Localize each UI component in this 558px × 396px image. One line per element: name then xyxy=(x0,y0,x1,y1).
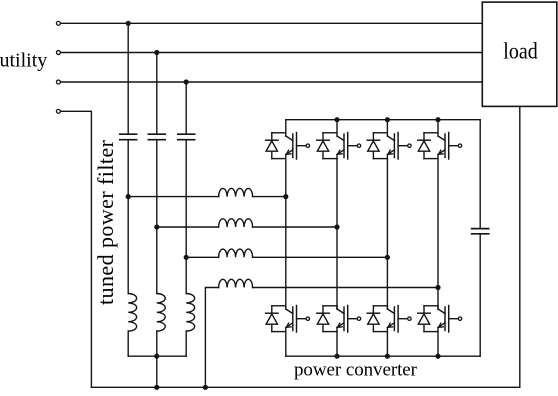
terminal: utility phase C xyxy=(56,80,60,84)
node: branch 1 tap on phase A xyxy=(126,21,131,26)
node: neutral feed junction xyxy=(203,385,208,390)
inductor La (converter link) xyxy=(219,188,253,196)
wire: row 3 from branch 3 xyxy=(186,256,218,258)
IGBT switch S8 (lower, with anti-parallel diode) xyxy=(418,306,462,357)
node: branch 3 feed to converter inductor row 3 xyxy=(184,255,189,260)
terminal: utility neutral xyxy=(56,109,60,113)
wire: DC- bottom bus xyxy=(286,355,480,357)
wire: filter bottom bus xyxy=(128,355,186,357)
wire: phase leg 3 midpoint xyxy=(386,155,388,310)
inductor L1 (tuned filter coil) xyxy=(128,294,136,332)
node: filter drop on neutral rail xyxy=(154,385,159,390)
wire: neutral jog down xyxy=(61,111,91,387)
node: branch 2 feed to converter inductor row 2 xyxy=(154,224,159,229)
inductor Lb (converter link) xyxy=(219,219,253,227)
wire: bottom neutral rail xyxy=(91,386,519,388)
IGBT switch S3 (upper, with anti-parallel diode) xyxy=(367,120,411,159)
IGBT switch S1 (upper, with anti-parallel diode) xyxy=(266,120,310,159)
wire: branch 1 lower segment xyxy=(127,331,129,356)
capacitor C2 (tuned filter) xyxy=(148,134,165,140)
capacitor C3 (tuned filter) xyxy=(178,134,195,140)
terminal: utility phase A xyxy=(56,21,60,25)
wire: DC right leg lower xyxy=(479,234,481,356)
IGBT switch S4 (upper, with anti-parallel diode) xyxy=(418,120,462,159)
node: leg 4 on DC+ bus xyxy=(435,117,440,122)
wire: DC right leg upper xyxy=(479,120,481,229)
node: row 3 on leg 3 xyxy=(385,255,390,260)
svg-text:load: load xyxy=(503,38,537,64)
wire: row 1 to leg 1 xyxy=(253,196,286,198)
wire: load neutral drop xyxy=(519,106,521,387)
node: filter bus junction xyxy=(154,354,159,359)
svg-text:power converter: power converter xyxy=(294,359,418,380)
IGBT switch S7 (lower, with anti-parallel diode) xyxy=(367,306,411,357)
wire: row 3 to leg 3 xyxy=(253,256,388,258)
node: leg 4 on DC- bus xyxy=(435,354,440,359)
wire: phase leg 4 midpoint xyxy=(437,155,439,310)
wire: row 2 from branch 2 xyxy=(157,226,219,228)
wire: phase leg 1 midpoint xyxy=(285,155,287,310)
inductor Ln (converter link) xyxy=(219,279,253,287)
wire: utility phase A line to load xyxy=(61,22,482,24)
node: branch 1 feed to converter inductor row 1 xyxy=(126,194,131,199)
node: branch 3 tap on phase C xyxy=(184,79,189,84)
node: leg 2 on DC- bus xyxy=(334,354,339,359)
wire: row 4 feed from neutral rail xyxy=(205,288,218,388)
terminal: utility phase B xyxy=(56,51,60,55)
wire: filter bus drop to neutral xyxy=(156,356,158,387)
IGBT switch S5 (lower, with anti-parallel diode) xyxy=(266,306,310,357)
wire: branch 3 lower segment xyxy=(185,331,187,356)
node: row 4 on leg 4 xyxy=(435,285,440,290)
wire: utility phase C line to load xyxy=(61,81,482,83)
wire: branch 1 upper segment xyxy=(127,23,129,134)
wire: branch 2 middle segment xyxy=(156,140,158,294)
node: row 2 on leg 2 xyxy=(334,224,339,229)
inductor Lc (converter link) xyxy=(219,249,253,257)
wire: branch 2 lower segment xyxy=(156,331,158,356)
node: branch 2 tap on phase B xyxy=(154,50,159,55)
wire: utility phase B line to load xyxy=(61,52,482,54)
capacitor DC link xyxy=(472,229,489,234)
IGBT switch S6 (lower, with anti-parallel diode) xyxy=(317,306,361,357)
IGBT switch S2 (upper, with anti-parallel diode) xyxy=(317,120,361,159)
svg-text:utility: utility xyxy=(0,49,47,71)
node: row 1 on leg 1 xyxy=(283,194,288,199)
wire: row 1 from branch 1 xyxy=(128,196,218,198)
svg-text:tuned power filter: tuned power filter xyxy=(93,139,118,305)
node: leg 3 on DC+ bus xyxy=(385,117,390,122)
wire: branch 2 upper segment xyxy=(156,53,158,135)
node: leg 2 on DC+ bus xyxy=(334,117,339,122)
load box xyxy=(482,2,557,106)
wire: phase leg 2 midpoint xyxy=(336,155,338,310)
wire: row 4 to leg 4 xyxy=(253,287,438,289)
wire: branch 3 upper segment xyxy=(185,82,187,134)
inductor L2 (tuned filter coil) xyxy=(157,294,165,332)
wire: branch 1 middle segment xyxy=(127,140,129,294)
capacitor C1 (tuned filter) xyxy=(120,134,137,140)
inductor L3 (tuned filter coil) xyxy=(186,294,194,332)
node: leg 3 on DC- bus xyxy=(385,354,390,359)
wire: DC+ top bus xyxy=(286,119,480,121)
wire: branch 3 middle segment xyxy=(185,140,187,294)
wire: row 2 to leg 2 xyxy=(253,226,337,228)
